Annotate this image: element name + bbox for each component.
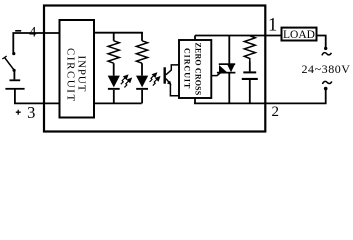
svg-text:CIRCUIT: CIRCUIT bbox=[64, 48, 76, 103]
wire zero cross box top to output bus bbox=[194, 36, 196, 41]
terminal 4 label bbox=[15, 24, 37, 40]
wire LOAD to AC source bbox=[317, 36, 326, 48]
optocoupler LED D2 bbox=[136, 76, 148, 104]
output top bus to terminal 1 and LOAD bbox=[195, 35, 282, 37]
AC tilde top bbox=[322, 53, 332, 56]
LED D1 indicator bbox=[108, 76, 120, 104]
wire from terminal 4 to input circuit bbox=[13, 33, 59, 53]
LED D1 light arrows bbox=[121, 75, 131, 87]
top bus from input circuit to LED branches bbox=[94, 32, 143, 34]
terminal 3 label bbox=[16, 103, 36, 122]
LOAD box bbox=[282, 28, 317, 41]
svg-text:1: 1 bbox=[268, 16, 277, 36]
SSR outer case box bbox=[44, 6, 265, 132]
wire zero cross box bottom to bottom bus bbox=[194, 98, 196, 103]
svg-text:2: 2 bbox=[272, 104, 280, 120]
input circuit box U1 bbox=[60, 20, 95, 118]
optocoupler light arrows bbox=[150, 73, 160, 85]
resistor R2 bbox=[136, 33, 147, 76]
bottom bus from input circuit to LED branches bbox=[94, 102, 142, 104]
svg-text:CIRCUIT: CIRCUIT bbox=[183, 48, 192, 89]
switch S1 bbox=[2, 52, 15, 72]
zero cross circuit label bbox=[183, 42, 203, 95]
triac Q2 bbox=[211, 36, 235, 104]
AC source node top bbox=[324, 47, 327, 50]
svg-text:INPUT: INPUT bbox=[76, 55, 88, 92]
snubber resistor R3 bbox=[244, 36, 255, 72]
phototransistor Q1 bbox=[164, 65, 180, 96]
AC source node bottom bbox=[324, 87, 328, 91]
zero cross circuit box U2 bbox=[179, 40, 211, 98]
snubber capacitor C1 bbox=[242, 71, 258, 103]
bottom bus to terminal 2 and AC source bbox=[194, 90, 326, 104]
svg-text:LOAD: LOAD bbox=[283, 29, 315, 41]
svg-text:24~380V: 24~380V bbox=[302, 62, 351, 76]
svg-text:3: 3 bbox=[27, 103, 35, 122]
input circuit label bbox=[64, 48, 87, 103]
wire battery to terminal 3 into input circuit bbox=[15, 90, 60, 104]
wire switch to battery bbox=[13, 70, 15, 79]
AC tilde bottom bbox=[322, 81, 331, 84]
resistor R1 bbox=[108, 33, 119, 76]
battery B1 bbox=[5, 79, 24, 89]
svg-text:ZERO CROSS: ZERO CROSS bbox=[193, 42, 202, 95]
